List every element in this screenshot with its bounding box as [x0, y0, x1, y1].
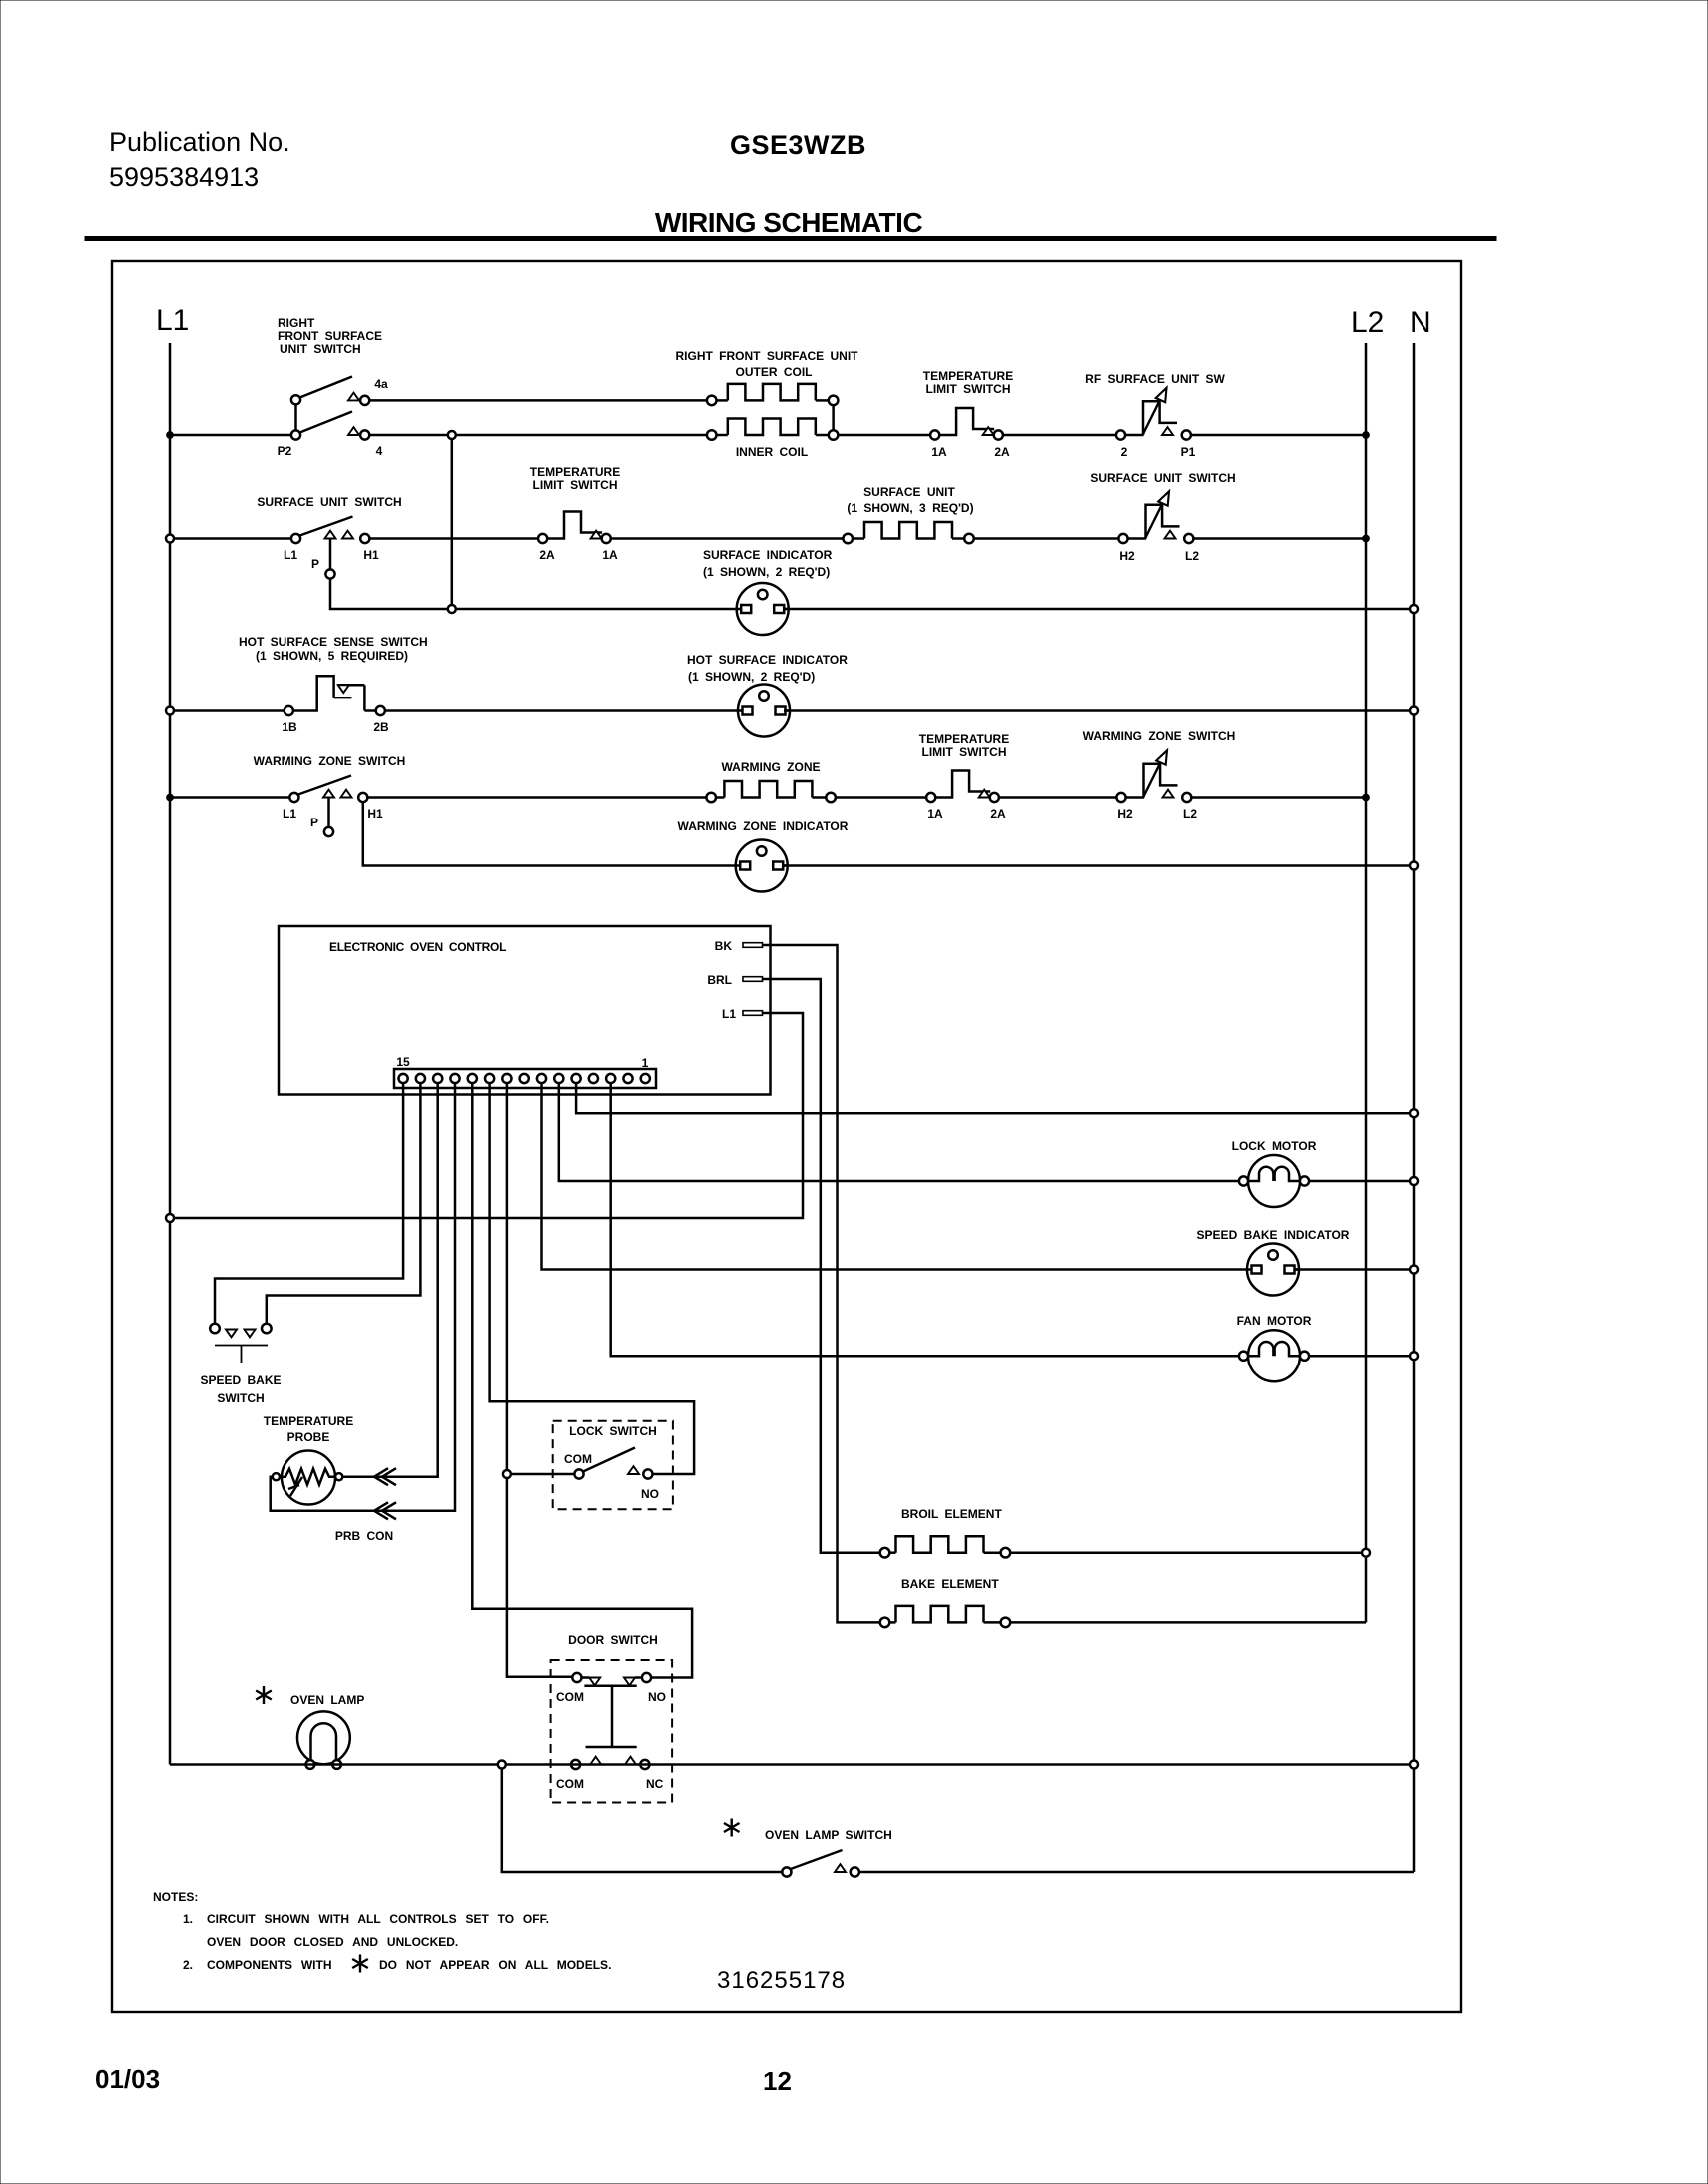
svg-text:ELECTRONIC OVEN CONTROL: ELECTRONIC OVEN CONTROL: [329, 940, 506, 954]
wire: 2A to warming zone switch H2: [999, 796, 1116, 799]
motor: FAN MOTOR: [1237, 1314, 1312, 1381]
wire: BK pin to bake element feed: [763, 945, 881, 1622]
motor: LOCK MOTOR: [1232, 1139, 1317, 1207]
wire: oven lamp switch to N bus bottom: [859, 1871, 1414, 1874]
junction circle on N bus at fan motor: [1410, 1352, 1418, 1360]
junction circle on L1 bus row3: [166, 707, 174, 715]
junction circle on L2 bus at broil element: [1362, 1549, 1370, 1557]
svg-text:1A: 1A: [927, 807, 943, 820]
wire: terminal 11 to door switch NO: [472, 1083, 692, 1677]
switch: TEMPERATURE LIMIT SWITCH row4 (1A/2A): [919, 732, 1009, 820]
contact 4 (triangle+circle): [348, 427, 383, 458]
svg-text:DO NOT APPEAR ON ALL MODELS.: DO NOT APPEAR ON ALL MODELS.: [379, 1958, 611, 1972]
wire: 1A to surface unit element: [612, 537, 844, 540]
svg-text:SWITCH: SWITCH: [217, 1391, 264, 1405]
junction dot on L1 bus row1: [167, 432, 174, 439]
svg-text:(1 SHOWN, 3 REQ'D): (1 SHOWN, 3 REQ'D): [847, 501, 973, 515]
wire: junction to lock switch COM: [511, 1473, 575, 1476]
wire: terminal 7 to speed bake indicator: [542, 1083, 1249, 1269]
svg-text:OVEN LAMP SWITCH: OVEN LAMP SWITCH: [765, 1828, 892, 1842]
wire: H1 to temperature limit switch 2A: [369, 537, 538, 540]
switch: RIGHT FRONT SURFACE UNIT SWITCH (double pole P2/4,4a): [278, 316, 382, 458]
svg-text:P: P: [310, 816, 318, 829]
svg-text:HOT SURFACE SENSE SWITCH: HOT SURFACE SENSE SWITCH: [239, 635, 428, 649]
svg-text:LIMIT SWITCH: LIMIT SWITCH: [922, 745, 1007, 759]
svg-text:L1: L1: [284, 548, 297, 562]
wire: row1 contact 4 to junction and inner coil: [369, 434, 707, 437]
svg-text:Publication No.: Publication No.: [109, 127, 290, 157]
wire: P contact drop to surface indicator branch: [330, 579, 448, 609]
svg-text:TEMPERATURE: TEMPERATURE: [530, 465, 620, 479]
wire: speed bake indicator to N bus: [1295, 1268, 1415, 1271]
junction dot on L2 bus row4: [1363, 794, 1370, 801]
junction circle on N bus at terminal 5 wire: [1410, 1109, 1418, 1117]
heater: BROIL ELEMENT: [880, 1507, 1011, 1557]
svg-text:P2: P2: [278, 444, 292, 458]
svg-text:WARMING ZONE: WARMING ZONE: [722, 760, 821, 774]
svg-text:FAN MOTOR: FAN MOTOR: [1237, 1314, 1312, 1328]
svg-text:L2: L2: [1183, 807, 1197, 820]
wire: terminal 6 to lock motor: [559, 1083, 1244, 1181]
svg-text:DOOR SWITCH: DOOR SWITCH: [568, 1633, 658, 1647]
svg-text:H2: H2: [1117, 807, 1133, 820]
svg-text:L1: L1: [156, 304, 189, 337]
wire: L2 contact to L2 bus: [1193, 537, 1366, 540]
wire: terminal 3 to fan motor: [611, 1083, 1244, 1356]
svg-text:NO: NO: [648, 1690, 666, 1704]
junction dot on L2 bus row2: [1363, 535, 1370, 542]
wire: P1 to L2 bus: [1191, 434, 1366, 437]
svg-text:SURFACE UNIT SWITCH: SURFACE UNIT SWITCH: [257, 495, 401, 509]
svg-text:OUTER COIL: OUTER COIL: [736, 365, 813, 379]
wire: broil element to L2 bus: [1010, 1551, 1366, 1554]
title underline rule: [85, 237, 1496, 241]
svg-text:LIMIT SWITCH: LIMIT SWITCH: [533, 478, 618, 492]
lamp: WARMING ZONE INDICATOR: [678, 819, 849, 892]
svg-text:TEMPERATURE: TEMPERATURE: [919, 732, 1009, 746]
svg-text:SURFACE UNIT SWITCH: SURFACE UNIT SWITCH: [1090, 471, 1235, 485]
wire: terminal 12 to temperature probe return: [271, 1083, 455, 1511]
switch: DOOR SWITCH (DPST, COM/NO upper and COM/NC lower): [551, 1633, 673, 1803]
junction circle on N bus row3: [1410, 707, 1418, 715]
switch: HOT SURFACE SENSE SWITCH (1B/2B): [239, 635, 428, 734]
wire: row1 from L1 bus to P2: [170, 434, 291, 437]
wire: L1 pin to L1 bus: [174, 1013, 803, 1218]
heater: BAKE ELEMENT: [880, 1577, 1011, 1627]
junction circle on bottom rail feeding oven lamp switch: [498, 1761, 506, 1769]
junction circle on N bus at lock motor: [1410, 1177, 1418, 1185]
svg-text:HOT SURFACE INDICATOR: HOT SURFACE INDICATOR: [687, 653, 848, 667]
svg-text:LIMIT SWITCH: LIMIT SWITCH: [926, 382, 1011, 396]
wire: terminal 14 to speed bake switch: [267, 1083, 421, 1324]
notes block: [153, 1890, 611, 1972]
wire: terminal 5 to N bus: [576, 1083, 1414, 1113]
pin BK of oven control: [715, 939, 763, 953]
svg-text:SPEED BAKE INDICATOR: SPEED BAKE INDICATOR: [1197, 1228, 1350, 1242]
svg-text:1.: 1.: [183, 1912, 193, 1926]
svg-text:H1: H1: [367, 807, 383, 820]
svg-text:1A: 1A: [602, 548, 618, 562]
wire: hot surface indicator to N bus: [784, 709, 1414, 712]
lamp: SURFACE INDICATOR: [703, 548, 833, 635]
svg-text:L2: L2: [1185, 549, 1199, 563]
wire: warming element to limit switch 1A: [836, 796, 926, 799]
svg-text:CIRCUIT SHOWN WITH ALL CONTROL: CIRCUIT SHOWN WITH ALL CONTROLS SET TO O…: [207, 1912, 549, 1926]
wire: surface indicator to N bus: [783, 608, 1414, 611]
svg-text:OVEN LAMP: OVEN LAMP: [290, 1693, 364, 1707]
wire: row3 from L1 bus to hot surface sense switch: [170, 709, 285, 712]
lamp: OVEN LAMP: [256, 1686, 364, 1769]
svg-text:UNIT SWITCH: UNIT SWITCH: [280, 342, 361, 356]
switch: TEMPERATURE LIMIT SWITCH row2 (2A/1A): [530, 465, 620, 562]
svg-text:NOTES:: NOTES:: [153, 1890, 198, 1904]
svg-text:5995384913: 5995384913: [109, 162, 259, 192]
heater: SURFACE UNIT element: [843, 485, 973, 543]
wire: probe left pin to return line: [271, 1477, 273, 1480]
svg-text:2A: 2A: [539, 548, 555, 562]
svg-text:BK: BK: [715, 939, 733, 953]
wire: terminal 10 to lock switch NO: [490, 1083, 694, 1474]
svg-text:SURFACE INDICATOR: SURFACE INDICATOR: [703, 548, 833, 562]
svg-text:1A: 1A: [931, 445, 947, 459]
svg-text:P1: P1: [1181, 445, 1196, 459]
svg-text:1: 1: [642, 1056, 649, 1070]
thermistor: TEMPERATURE PROBE: [264, 1414, 393, 1543]
svg-text:BROIL ELEMENT: BROIL ELEMENT: [901, 1507, 1002, 1521]
svg-text:LOCK MOTOR: LOCK MOTOR: [1232, 1139, 1317, 1153]
svg-text:WIRING SCHEMATIC: WIRING SCHEMATIC: [655, 207, 923, 238]
wire: L1 supply bus: [169, 343, 172, 1765]
wire: row2 from L1 bus to surface unit switch: [170, 537, 291, 540]
svg-text:COM: COM: [564, 1452, 592, 1466]
connector chevrons PRB CON on probe feed: [374, 1468, 396, 1485]
svg-text:316255178: 316255178: [717, 1967, 846, 1994]
svg-text:OVEN DOOR CLOSED AND UNLOCKED.: OVEN DOOR CLOSED AND UNLOCKED.: [207, 1935, 458, 1949]
wire: terminal 15 to speed bake switch: [215, 1083, 403, 1324]
svg-text:TEMPERATURE: TEMPERATURE: [264, 1414, 353, 1428]
svg-text:BAKE ELEMENT: BAKE ELEMENT: [901, 1577, 999, 1591]
svg-text:INNER COIL: INNER COIL: [736, 445, 808, 459]
svg-text:2.: 2.: [183, 1958, 193, 1972]
wire: 4a branch to outer coil: [369, 399, 707, 402]
svg-text:RIGHT: RIGHT: [278, 316, 315, 330]
wire: warming zone indicator to N bus: [782, 864, 1414, 867]
svg-text:1B: 1B: [282, 720, 297, 734]
svg-text:WARMING ZONE SWITCH: WARMING ZONE SWITCH: [254, 754, 406, 768]
svg-text:(1 SHOWN, 5 REQUIRED): (1 SHOWN, 5 REQUIRED): [256, 649, 408, 663]
wire: inner coil to limit switch 1A: [838, 434, 930, 437]
terminal strip P1 of oven control (pins 15..1): [394, 1055, 656, 1088]
wire: surface unit to H2: [974, 537, 1119, 540]
wire: 2B to hot surface indicator: [385, 709, 745, 712]
svg-text:LOCK SWITCH: LOCK SWITCH: [569, 1424, 657, 1438]
asterisk in note 2: [352, 1955, 368, 1973]
wire: vertical drop from row1 junction to indicator branch: [451, 439, 454, 605]
svg-text:01/03: 01/03: [95, 2064, 160, 2094]
svg-text:SURFACE UNIT: SURFACE UNIT: [863, 485, 955, 499]
svg-text:4a: 4a: [374, 377, 388, 391]
junction circle on L1 bus row2: [166, 535, 174, 543]
svg-text:2A: 2A: [994, 445, 1010, 459]
svg-text:N: N: [1410, 306, 1431, 339]
switch: LOCK SWITCH (COM/NO): [553, 1421, 673, 1510]
svg-text:COM: COM: [556, 1777, 584, 1791]
wire: fan motor to N bus: [1309, 1355, 1414, 1358]
wire: drop from bottom rail to oven lamp switch row: [502, 1769, 783, 1873]
junction circle on N bus at indicator branch: [1410, 605, 1418, 613]
heater: WARMING ZONE element: [706, 760, 835, 802]
heater: INNER COIL: [707, 419, 838, 460]
svg-text:NO: NO: [641, 1487, 659, 1501]
switch: WARMING ZONE SWITCH right (infinite switch H2/L2): [1083, 729, 1236, 820]
wire: L2 supply bus: [1365, 343, 1368, 1622]
switch: SPEED BAKE SWITCH: [200, 1324, 281, 1405]
switch: RF SURFACE UNIT SW (infinite switch 2/P1): [1085, 372, 1225, 459]
pin BRL of oven control: [707, 973, 762, 987]
lamp: HOT SURFACE INDICATOR: [687, 653, 848, 737]
svg-text:COMPONENTS WITH: COMPONENTS WITH: [207, 1958, 332, 1972]
wire: BRL pin to broil element feed: [763, 979, 881, 1553]
wire: L2 contact to L2 bus row4: [1191, 796, 1366, 799]
svg-text:BRL: BRL: [707, 973, 732, 987]
wire: bake element to L2 bus bottom: [1010, 1621, 1366, 1624]
svg-text:H2: H2: [1119, 549, 1135, 563]
junction circle on L1 bus at oven control L1 wire: [166, 1214, 174, 1222]
svg-text:2A: 2A: [990, 807, 1006, 820]
svg-text:WARMING ZONE INDICATOR: WARMING ZONE INDICATOR: [678, 819, 849, 833]
connector chevrons PRB CON on probe return: [374, 1502, 396, 1519]
svg-text:(1 SHOWN, 2 REQ'D): (1 SHOWN, 2 REQ'D): [703, 565, 830, 579]
svg-text:(1 SHOWN, 2 REQ'D): (1 SHOWN, 2 REQ'D): [688, 670, 815, 684]
wire: bottom rail from L1 bus through oven lamp and door switch to N bus: [170, 1763, 1414, 1766]
svg-text:P: P: [311, 557, 319, 571]
switch: TEMPERATURE LIMIT SWITCH row1 (1A/2A): [923, 369, 1013, 459]
svg-text:SPEED BAKE: SPEED BAKE: [200, 1373, 281, 1387]
svg-text:2B: 2B: [373, 720, 389, 734]
junction dot on L1 bus row4: [167, 794, 174, 801]
wire: 2A to RF surface unit switch: [1003, 434, 1116, 437]
svg-text:L1: L1: [722, 1007, 736, 1021]
junction dot on L2 bus row1: [1363, 432, 1370, 439]
svg-text:TEMPERATURE: TEMPERATURE: [923, 369, 1013, 383]
svg-text:15: 15: [396, 1055, 410, 1069]
svg-text:COM: COM: [556, 1690, 584, 1704]
svg-text:RF SURFACE UNIT SW: RF SURFACE UNIT SW: [1085, 372, 1225, 386]
junction circle on N bus at bottom rail: [1410, 1761, 1418, 1769]
junction circle on terminal 9 wire at lock switch COM: [503, 1470, 511, 1478]
svg-text:H1: H1: [363, 548, 379, 562]
page header: publication number block: [109, 127, 290, 192]
switch: SURFACE UNIT SWITCH (L1/P/H1): [257, 495, 401, 579]
svg-text:PROBE: PROBE: [287, 1430, 330, 1444]
junction circle on N bus at warming indicator: [1410, 862, 1418, 870]
junction circle where row1 drop meets indicator branch: [448, 605, 456, 613]
switch: WARMING ZONE SWITCH (L1/P/H1): [254, 754, 406, 836]
contact 4a (triangle+circle): [348, 377, 388, 405]
ELECTRONIC OVEN CONTROL box U1: [279, 926, 771, 1095]
switch: SURFACE UNIT SWITCH right (infinite switch H2/L2): [1090, 471, 1235, 563]
wire: N neutral bus: [1413, 343, 1416, 1872]
wire: terminal 9 to lock switch COM and door switch COM: [507, 1083, 572, 1677]
svg-text:12: 12: [763, 2066, 792, 2096]
wire: H1 to warming zone element: [367, 796, 706, 799]
lamp: SPEED BAKE INDICATOR: [1197, 1228, 1350, 1296]
switch: OVEN LAMP SWITCH: [724, 1819, 892, 1877]
svg-text:L1: L1: [283, 807, 296, 820]
schematic border frame: [112, 261, 1461, 2012]
wire: terminal 13 to temperature probe: [342, 1083, 438, 1477]
svg-text:2: 2: [1121, 445, 1128, 459]
svg-text:FRONT SURFACE: FRONT SURFACE: [278, 329, 382, 343]
svg-text:L2: L2: [1351, 306, 1384, 339]
junction node on row1 feeding surface indicator branch: [448, 431, 456, 439]
junction circle on N bus at speed bake indicator: [1410, 1266, 1418, 1274]
wire: row4 from L1 bus to warming zone switch: [170, 796, 289, 799]
wire: tie between outer and inner coil right ends: [832, 405, 835, 430]
svg-text:RIGHT FRONT SURFACE UNIT: RIGHT FRONT SURFACE UNIT: [676, 349, 859, 363]
svg-text:GSE3WZB: GSE3WZB: [730, 130, 866, 160]
wire: indicator branch to surface indicator lamp: [456, 608, 744, 611]
wire: lock motor to N bus: [1309, 1180, 1414, 1183]
svg-text:WARMING ZONE SWITCH: WARMING ZONE SWITCH: [1083, 729, 1236, 743]
wire: H1 drop to warming zone indicator branch: [363, 802, 736, 865]
svg-text:PRB CON: PRB CON: [335, 1529, 393, 1543]
heater: OUTER COIL: [707, 365, 838, 405]
pin L1 of oven control: [722, 1007, 763, 1021]
svg-text:NC: NC: [646, 1777, 664, 1791]
svg-text:4: 4: [376, 444, 383, 458]
